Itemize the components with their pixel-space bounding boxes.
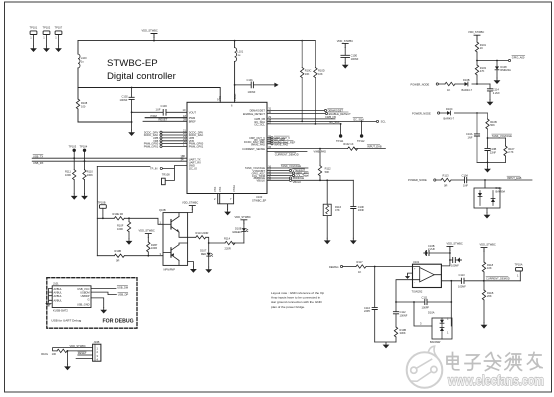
resistor R116 boxed: [323, 179, 341, 238]
op-amp U101: [412, 260, 442, 294]
svg-text:1K: 1K: [447, 88, 450, 92]
svg-text:C10A: C10A: [466, 132, 473, 136]
svg-text:R113: R113: [443, 173, 450, 177]
svg-text:C10E: C10E: [351, 53, 358, 57]
svg-text:WAVE_PAD: WAVE_PAD: [251, 142, 265, 146]
svg-text:22PF: 22PF: [364, 309, 371, 313]
svg-text:0R: 0R: [116, 259, 119, 263]
svg-text:10K: 10K: [318, 72, 323, 76]
wire CURRENT_SENSE row / resistor R102: [267, 142, 385, 153]
svg-text:VDD_STWBC: VDD_STWBC: [235, 215, 251, 219]
svg-text:R10B: R10B: [115, 249, 122, 253]
power VDD_STWBC mid / resistor R117b: [139, 229, 158, 257]
watermark chinese characters: [447, 353, 542, 371]
svg-text:2.7K: 2.7K: [508, 150, 514, 154]
svg-text:J101: J101: [53, 282, 59, 286]
svg-text:ENABLE_DETECT: ENABLE_DETECT: [243, 112, 265, 116]
svg-text:R114: R114: [224, 237, 231, 241]
wire J10B pin1 VDD: [53, 344, 93, 351]
wire USB_DM: [91, 285, 128, 289]
svg-text:R118: R118: [487, 263, 494, 267]
node DCDC_DAC: [144, 131, 187, 137]
svg-text:1: 1: [97, 347, 99, 351]
text FOR DEBUG: [103, 318, 134, 324]
svg-text:4: 4: [97, 357, 99, 361]
svg-text:CWB_FB: CWB_FB: [325, 115, 336, 119]
svg-text:+: +: [414, 268, 416, 271]
svg-text:TP_IN: TP_IN: [150, 167, 157, 171]
svg-text:plan of the power bridge.: plan of the power bridge.: [271, 305, 305, 309]
wire I2C_SCL row: [267, 120, 342, 125]
svg-text:TSV6292: TSV6292: [412, 290, 423, 294]
resistor R10C pull-up: [301, 40, 312, 122]
net labels USB_TX USB_RX: [33, 154, 44, 164]
svg-text:R10B: R10B: [400, 328, 407, 332]
svg-text:R113 220R: R113 220R: [196, 231, 209, 235]
svg-text:2: 2: [447, 317, 449, 321]
svg-text:VSSA: VSSA: [232, 185, 236, 192]
node PWM_GP01: [144, 143, 187, 149]
svg-text:TP103: TP103: [69, 144, 77, 148]
svg-text:BAR43-7: BAR43-7: [462, 88, 473, 92]
wire ENABLE_DETECT row: [267, 112, 351, 116]
node DCDC_DRV: [144, 128, 187, 134]
diode D10A BAV99W: [413, 301, 452, 344]
test point TP111: [336, 124, 344, 143]
test point TP103: [55, 26, 63, 52]
svg-text:D10B: D10B: [463, 78, 470, 82]
svg-text:J10B: J10B: [94, 340, 100, 344]
ground J10B: [64, 351, 71, 370]
svg-text:RED: RED: [201, 252, 207, 256]
svg-text:USB_DP: USB_DP: [118, 292, 129, 296]
test point TP102: [43, 26, 51, 52]
svg-text:L100: L100: [81, 56, 87, 60]
svg-text:BAR43-7: BAR43-7: [444, 117, 455, 121]
svg-text:USBDM: USBDM: [80, 290, 89, 294]
svg-text:10NF: 10NF: [358, 208, 365, 212]
svg-text:C110: C110: [364, 306, 371, 310]
svg-text:Q10B: Q10B: [159, 208, 166, 212]
svg-text:RESET: RESET: [159, 118, 168, 122]
svg-text:2.2UF: 2.2UF: [493, 91, 500, 95]
wire / ground tank bottom: [477, 162, 506, 173]
svg-text:1: 1: [517, 274, 519, 278]
svg-text:100NF: 100NF: [120, 98, 128, 102]
node VFB: [153, 137, 187, 143]
svg-text:D101: D101: [496, 186, 503, 190]
svg-text:BAV99A: BAV99A: [496, 189, 506, 193]
wire pin4 row: [76, 357, 93, 359]
svg-text:2: 2: [214, 197, 216, 201]
node PWM_GP00: [144, 140, 187, 146]
resistor R101: [475, 39, 486, 60]
svg-text:1: 1: [55, 36, 57, 40]
svg-text:100NF: 100NF: [451, 264, 459, 268]
svg-text:U100: U100: [256, 195, 263, 199]
svg-text:R112: R112: [325, 166, 332, 170]
wire left edge: [77, 41, 79, 122]
wire gnd rail / ground: [375, 342, 396, 348]
svg-text:1u: 1u: [237, 53, 240, 57]
svg-text:R116: R116: [335, 205, 342, 209]
resistor R113b emitter: [188, 231, 210, 244]
svg-text:CURRENT_DEMOD: CURRENT_DEMOD: [486, 276, 510, 280]
svg-text:Amp inputs have to be connecte: Amp inputs have to be connected in: [271, 296, 320, 300]
wire I2C_SDA row: [267, 117, 386, 123]
svg-text:C112: C112: [400, 310, 407, 314]
svg-text:6: 6: [231, 104, 233, 108]
svg-text:R10E 0R: R10E 0R: [113, 212, 124, 216]
svg-text:1u: 1u: [81, 59, 84, 63]
svg-text:R111: R111: [65, 170, 71, 174]
svg-text:100K: 100K: [65, 173, 71, 177]
svg-text:FOR DEBUG: FOR DEBUG: [103, 318, 134, 324]
svg-text:R10F: R10F: [117, 223, 124, 227]
capacitor C10C 100nF: [450, 257, 462, 267]
node GPIO_ADC: [267, 171, 309, 175]
wire VDD top rail: [78, 40, 315, 42]
svg-text:star ground connection with th: star ground connection with the GND: [271, 300, 322, 304]
svg-text:TP111: TP111: [336, 139, 344, 143]
svg-text:VDD_STWBC: VDD_STWBC: [447, 242, 463, 246]
capacitor C101 with port arrow: [234, 78, 279, 94]
wire feedback / capacitor C111: [395, 295, 451, 309]
svg-text:AVBUL: AVBUL: [54, 290, 63, 294]
svg-text:R10D: R10D: [318, 68, 325, 72]
svg-text:C114: C114: [493, 87, 500, 91]
svg-text:STWBC-EP: STWBC-EP: [107, 58, 158, 69]
svg-text:USB_VCC: USB_VCC: [77, 287, 89, 291]
net TANK_VOLTAGE: [487, 134, 513, 139]
svg-text:TP102: TP102: [43, 26, 51, 30]
capacitor C112: [393, 280, 412, 327]
svg-text:C113: C113: [459, 273, 466, 277]
node POWER_NODE row2 / diode D10C: [412, 107, 488, 121]
svg-text:POWER_NODE: POWER_NODE: [411, 82, 430, 86]
watermark logo: [407, 346, 443, 388]
connector J101 USB: [52, 282, 91, 313]
svg-text:AVBUL: AVBUL: [54, 294, 63, 298]
svg-text:I2C_SCL: I2C_SCL: [254, 123, 265, 127]
capacitor C10F: [351, 180, 365, 238]
svg-text:Layout note : GND reference of: Layout note : GND reference of the Op: [271, 291, 324, 295]
svg-text:VBULK: VBULK: [256, 179, 265, 183]
test point TP103 / resistor R111: [65, 144, 78, 199]
svg-text:BREF: BREF: [189, 119, 196, 123]
svg-text:C10B: C10B: [490, 147, 497, 151]
svg-text:CURRENT_SENSE: CURRENT_SENSE: [242, 147, 265, 151]
svg-text:VDD_STWBC: VDD_STWBC: [182, 201, 198, 205]
svg-text:220R: 220R: [225, 247, 231, 251]
svg-text:1UF: 1UF: [156, 108, 161, 112]
node POWER_NODE row1 / resistor R104 / diode D10B: [411, 78, 491, 92]
node TP_IN / test point TR108: [150, 166, 187, 185]
wire VBULK row: [267, 179, 353, 184]
svg-text:VSS: VSS: [218, 187, 222, 192]
svg-text:10: 10: [183, 108, 186, 112]
capacitor C102: [120, 88, 135, 131]
svg-text:1NF: 1NF: [468, 136, 473, 140]
capacitor C10B: [485, 138, 497, 162]
svg-text:100: 100: [52, 352, 57, 356]
dashed debug box: [47, 278, 137, 329]
svg-text:GREEN: GREEN: [232, 230, 241, 234]
svg-text:NPN/PNP: NPN/PNP: [164, 267, 176, 271]
svg-text:1: 1: [43, 36, 45, 40]
svg-text:WAVE_PAD: WAVE_PAD: [274, 143, 288, 147]
pin numbers IC left edge: [181, 114, 187, 162]
svg-text:CURRENT_DEMOD: CURRENT_DEMOD: [275, 152, 299, 156]
svg-text:-: -: [414, 281, 415, 284]
note text block: [271, 291, 324, 309]
wire node A horizontal: [78, 87, 220, 103]
svg-text:100: 100: [81, 104, 86, 108]
svg-text:50K: 50K: [325, 170, 330, 174]
svg-text:20K: 20K: [487, 294, 492, 298]
svg-text:VOUT: VOUT: [189, 110, 197, 114]
transistor Q10B dual: [159, 208, 188, 271]
svg-text:100NF: 100NF: [248, 90, 256, 94]
power VDD right / resistor R118: [480, 243, 496, 281]
IC bottom pins and ground: [214, 194, 234, 216]
wire left drop: [97, 166, 150, 255]
svg-text:VDD_STWBC: VDD_STWBC: [337, 39, 353, 43]
svg-text:USB_TX: USB_TX: [33, 154, 43, 158]
svg-text:BAV99W: BAV99W: [430, 340, 441, 344]
IC bottom pin labels: [213, 185, 236, 192]
wire USB_DP: [91, 292, 128, 296]
svg-text:D108: D108: [500, 65, 507, 69]
power VDD_STWBC tap: [142, 29, 158, 42]
test point TP10B: [98, 200, 107, 219]
svg-text:1: 1: [447, 331, 449, 335]
svg-text:TP107: TP107: [55, 26, 63, 30]
wire base2 / resistor R110b: [97, 249, 163, 262]
inductor L101: [234, 40, 244, 103]
node WAVE_PAD: [267, 143, 288, 147]
wire UART_TX: [32, 154, 187, 159]
resistor R11B: [481, 281, 494, 329]
wire DEMAG/DET row: [267, 109, 343, 113]
connector J10B: [93, 340, 101, 361]
svg-text:VSS: VSS: [213, 187, 217, 192]
svg-text:www.elecfans.com: www.elecfans.com: [447, 372, 544, 388]
svg-text:100NF: 100NF: [400, 314, 408, 318]
svg-text:AVBUL: AVBUL: [54, 287, 63, 291]
svg-text:AVBUL: AVBUL: [54, 299, 63, 303]
svg-text:PWM: PWM: [151, 114, 157, 118]
resistor R10B2 330K: [394, 327, 406, 342]
resistor R108: [76, 99, 87, 109]
wire TANK_VOLTAGE row: [267, 164, 308, 168]
IC left pin labels: [189, 110, 204, 170]
svg-text:TANK_VOLTAGE: TANK_VOLTAGE: [492, 134, 512, 138]
svg-text:C111: C111: [422, 295, 428, 299]
svg-text:TR108: TR108: [162, 173, 170, 177]
resistor R107: [504, 138, 515, 162]
resistor R10G: [41, 349, 92, 356]
resistor R114: [209, 237, 244, 251]
wire UART_RX: [32, 160, 187, 162]
svg-text:100PF: 100PF: [422, 305, 430, 309]
svg-text:47K: 47K: [335, 208, 340, 212]
svg-text:RMD20A: RMD20A: [500, 68, 511, 72]
svg-text:3: 3: [160, 252, 162, 256]
capacitor C110: [364, 267, 377, 343]
power VDD op-amp: [441, 242, 463, 266]
node DEMAG input: [329, 265, 356, 269]
wire RESET row: [78, 351, 93, 355]
svg-text:USBDP: USBDP: [81, 294, 90, 298]
node CMP_OUT_V: [267, 136, 290, 140]
svg-text:STWBC_EP: STWBC_EP: [252, 199, 267, 203]
svg-text:ENABLE_DETECT: ENABLE_DETECT: [329, 112, 351, 116]
svg-text:30: 30: [182, 154, 185, 158]
svg-text:PWM_GP01: PWM_GP01: [144, 145, 159, 149]
node DCDC_DAC_REF: [267, 140, 296, 144]
svg-text:1: 1: [160, 220, 162, 224]
svg-text:47K: 47K: [480, 69, 485, 73]
svg-text:TP104: TP104: [80, 144, 88, 148]
test point TP104 / resistor R110: [80, 144, 94, 199]
node POWER_NODE row3 / resistor R113 / capacitor C104: [408, 173, 532, 187]
svg-text:KUSB-SMT2: KUSB-SMT2: [53, 308, 68, 312]
svg-text:D10A: D10A: [428, 311, 435, 315]
svg-text:10K: 10K: [487, 266, 492, 270]
wire RESET: [143, 118, 187, 122]
wire op-amp output: [441, 280, 461, 326]
svg-text:R11B: R11B: [487, 291, 494, 295]
svg-text:C10F: C10F: [358, 205, 365, 209]
svg-text:C103: C103: [161, 104, 168, 108]
svg-text:VDD_STWBC: VDD_STWBC: [480, 243, 496, 247]
svg-text:POWER_NODE: POWER_NODE: [412, 111, 431, 115]
svg-text:L101: L101: [237, 50, 243, 54]
net label CURRENT_DEMOD: [267, 151, 307, 156]
capacitor C10B2 2.2uF: [424, 244, 450, 256]
svg-text:R101: R101: [480, 43, 487, 47]
svg-text:VTK: VTK: [218, 96, 222, 101]
svg-text:VDD_STWBC: VDD_STWBC: [70, 344, 86, 348]
svg-text:USB for UART Debug: USB for UART Debug: [51, 319, 81, 323]
svg-text:GPIO_A00: GPIO_A00: [512, 55, 525, 59]
power VDD_STWBC right column: [468, 30, 484, 39]
svg-text:D107: D107: [200, 248, 207, 252]
svg-text:R103: R103: [480, 66, 487, 70]
resistor R10B: [486, 113, 497, 138]
svg-text:POWER_NODE: POWER_NODE: [408, 178, 427, 182]
resistor R10F: [117, 218, 132, 244]
svg-text:1: 1: [30, 36, 32, 40]
power VDD_STWBC transistor top: [182, 201, 198, 213]
test point TP10A: [515, 262, 523, 280]
svg-text:R102 1K: R102 1K: [343, 142, 353, 146]
svg-text:SCL: SCL: [381, 120, 387, 124]
LED D10B green: [232, 215, 251, 243]
svg-text:DEMAG: DEMAG: [329, 265, 339, 269]
svg-text:3: 3: [420, 322, 422, 326]
svg-text:100NF: 100NF: [351, 57, 359, 61]
svg-text:TP10B: TP10B: [98, 200, 106, 204]
capacitor C113: [458, 273, 520, 289]
svg-text:R107: R107: [508, 147, 515, 151]
svg-text:INPUT_EAB: INPUT_EAB: [507, 176, 522, 180]
wire CWB_FB row: [267, 115, 336, 119]
resistor R112: [318, 149, 331, 181]
svg-text:10K: 10K: [305, 72, 310, 76]
svg-text:VDD_STWBC: VDD_STWBC: [142, 29, 158, 33]
svg-text:USB_GND: USB_GND: [77, 303, 90, 307]
IC top pin labels: [218, 94, 237, 108]
svg-text:TANK_VOLTAGE: TANK_VOLTAGE: [281, 164, 301, 168]
op-amp U100 main IC box: [187, 102, 267, 202]
svg-text:0R: 0R: [444, 184, 447, 188]
svg-text:ZBRIDGE: ZBRIDGE: [293, 176, 305, 180]
ground: [128, 130, 135, 136]
svg-text:I2C_SDA: I2C_SDA: [353, 117, 364, 121]
svg-text:PWM_GP01: PWM_GP01: [189, 145, 204, 149]
wire PWM: [145, 114, 187, 118]
IC right pin labels: [242, 109, 265, 183]
test point TP101: [30, 26, 38, 52]
svg-text:I2C_IO: I2C_IO: [189, 166, 197, 170]
pin numbers IC right edge: [268, 107, 271, 181]
svg-text:Digital controller: Digital controller: [107, 71, 177, 82]
svg-text:100NF: 100NF: [458, 285, 466, 289]
wire USB gnd: [91, 298, 107, 314]
svg-text:7: 7: [230, 197, 232, 201]
svg-text:100K: 100K: [117, 227, 123, 231]
svg-text:U101: U101: [413, 260, 420, 264]
capacitor C114: [487, 84, 501, 106]
svg-text:C101: C101: [247, 78, 254, 82]
diode D101 BAV99A: [474, 180, 505, 219]
inductor L100: [78, 54, 87, 68]
title text: [107, 58, 177, 82]
test point TP112: [357, 121, 365, 142]
svg-text:1NF: 1NF: [463, 184, 468, 188]
svg-text:R110: R110: [87, 170, 94, 174]
svg-text:1K: 1K: [358, 270, 361, 274]
svg-text:330K: 330K: [400, 331, 406, 335]
svg-text:C102: C102: [122, 95, 129, 99]
node DX_CMP: [267, 138, 285, 142]
svg-text:D10B: D10B: [235, 226, 242, 230]
svg-text:3: 3: [97, 354, 99, 358]
svg-text:100K: 100K: [87, 173, 93, 177]
capacitor C10A: [466, 113, 488, 162]
wire USB left pins: [46, 289, 52, 306]
capacitor C10E on VDD: [337, 39, 359, 69]
svg-text:50K: 50K: [490, 123, 495, 127]
ground op-amp pin: [405, 273, 413, 279]
svg-text:G: G: [87, 298, 89, 302]
svg-text:TP112: TP112: [357, 139, 365, 143]
watermark url text: [447, 372, 544, 388]
svg-text:22NF: 22NF: [490, 150, 497, 154]
resistor R103: [475, 61, 486, 85]
svg-text:100R: 100R: [151, 246, 157, 250]
svg-text:TP10A: TP10A: [515, 262, 523, 266]
node VTANKBIT: [267, 169, 306, 173]
node COL_TRIM: [267, 174, 309, 178]
svg-text:C104: C104: [462, 173, 469, 177]
svg-text:I2C_SCL: I2C_SCL: [329, 120, 340, 124]
svg-text:USB_DM: USB_DM: [117, 285, 128, 289]
svg-text:R1B7: R1B7: [151, 243, 158, 247]
LED D107 red: [200, 243, 213, 273]
